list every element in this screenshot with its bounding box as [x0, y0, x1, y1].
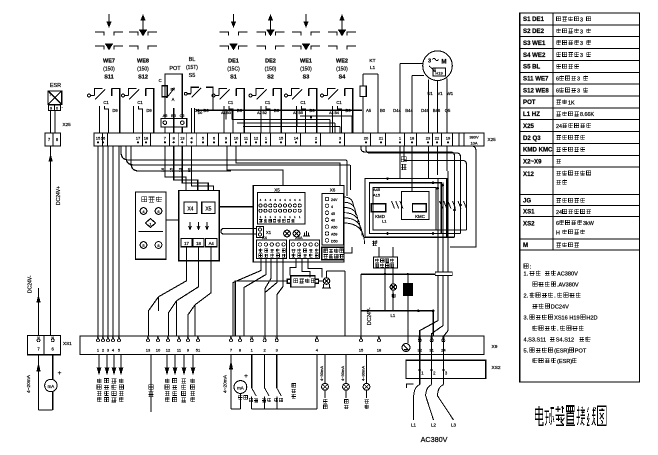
terminal bus X2 [94, 133, 484, 146]
signal wires left [98, 146, 119, 336]
svg-text:S11 WE7: S11 WE7 [523, 76, 549, 83]
svg-text:22: 22 [435, 136, 440, 141]
speed controller ESR [48, 91, 63, 111]
motor M 3-phase [423, 51, 453, 81]
svg-text:KT: KT [369, 58, 375, 64]
svg-text:L1: L1 [370, 65, 376, 71]
label WE1 S3 [300, 59, 312, 81]
svg-text:4~20mA: 4~20mA [223, 374, 229, 393]
svg-text:X25: X25 [63, 122, 72, 127]
signal outputs mid [165, 355, 195, 402]
motor leads U1 V1 W1 [393, 64, 454, 134]
svg-text:+: + [244, 373, 248, 380]
plug connector XS2 [406, 360, 486, 378]
fuse black box [403, 284, 412, 344]
table row X2~X9 [523, 158, 561, 165]
wire X4 module to X5 block [219, 206, 253, 208]
table row S11 WE7 [523, 76, 588, 83]
svg-text:3: 3 [580, 29, 583, 35]
label POT [169, 66, 181, 72]
svg-text:12: 12 [166, 348, 171, 353]
table row D2 Q3 [523, 135, 585, 142]
svg-text:3: 3 [428, 59, 431, 65]
microswitch contact S4 [321, 89, 353, 134]
wire into X5 top [227, 146, 340, 186]
svg-text:6: 6 [556, 89, 559, 95]
svg-text:2.: 2. [524, 294, 529, 300]
svg-text:L1: L1 [391, 313, 396, 318]
brake unit box [287, 276, 318, 287]
label ESR [50, 83, 61, 89]
svg-text:POT: POT [575, 349, 587, 355]
wire brake left [235, 281, 323, 336]
wire module feeds [344, 247, 393, 311]
svg-text:L2: L2 [431, 423, 436, 428]
svg-text:C1: C1 [336, 100, 342, 105]
svg-text:H2D: H2D [586, 316, 597, 322]
svg-text:A: A [172, 97, 175, 102]
label XS2 [492, 365, 501, 371]
component table grid [520, 13, 640, 382]
POT terminal block A5 B5 C5 [161, 114, 187, 127]
svg-text:DE1: DE1 [228, 59, 239, 65]
svg-text:A45: A45 [373, 187, 381, 192]
svg-text:S1 DE1: S1 DE1 [523, 16, 545, 23]
limit switch cam symbol S1 [220, 14, 248, 50]
svg-text:(150): (150) [137, 67, 149, 73]
svg-text:5.: 5. [524, 349, 529, 355]
svg-text:X25: X25 [488, 137, 497, 142]
table row X12 [523, 171, 591, 185]
table row S3 WE1 [523, 40, 591, 47]
svg-text:X4: X4 [187, 207, 193, 213]
svg-text:ESR: ESR [50, 83, 61, 89]
svg-text:mA: mA [237, 386, 244, 391]
svg-text:C1: C1 [228, 100, 234, 105]
svg-text:13: 13 [146, 348, 151, 353]
svg-text:A1 B3: A1 B3 [221, 111, 231, 115]
svg-text:X6: X6 [330, 188, 336, 193]
svg-text:14: 14 [294, 136, 299, 141]
svg-text:S5 BL: S5 BL [523, 64, 541, 71]
svg-text:23: 23 [426, 136, 431, 141]
table row S5 BL [523, 64, 579, 71]
svg-text:X6A: X6A [295, 235, 303, 240]
svg-text:18: 18 [196, 241, 201, 246]
svg-text:19: 19 [446, 136, 451, 141]
svg-text:S3 WE1: S3 WE1 [523, 40, 546, 47]
wire loop outer [365, 179, 447, 238]
svg-text:20: 20 [364, 136, 369, 141]
relay module X4 X5 [179, 190, 220, 260]
wire loop inner [373, 188, 436, 230]
svg-text:M: M [441, 59, 446, 66]
label AC380V [421, 435, 448, 444]
svg-text:51: 51 [196, 348, 201, 353]
svg-text:DC24V: DC24V [551, 305, 569, 311]
svg-text:L1: L1 [382, 219, 387, 224]
svg-text:WE2: WE2 [336, 59, 348, 65]
table row POT [523, 99, 575, 106]
phase wires to XS2 [420, 146, 453, 379]
svg-text:31: 31 [429, 348, 434, 353]
analog outputs left [97, 355, 124, 402]
svg-text:8.66K: 8.66K [580, 112, 594, 118]
svg-text:4.S3.S11: 4.S3.S11 [524, 338, 547, 344]
svg-text:H: H [556, 230, 560, 236]
svg-text:S2 DE2: S2 DE2 [523, 28, 545, 35]
table row XS1 [523, 208, 591, 216]
svg-text:S4.S12: S4.S12 [556, 338, 574, 344]
indicator lamps pair [284, 230, 310, 237]
svg-text:X9: X9 [492, 344, 498, 350]
svg-text:12: 12 [254, 136, 259, 141]
svg-text:10: 10 [156, 348, 161, 353]
svg-text:24V: 24V [331, 198, 338, 202]
svg-text:X5: X5 [274, 188, 280, 193]
svg-text:D50: D50 [331, 239, 338, 243]
svg-text:3: 3 [580, 53, 583, 59]
wires loops to bus [379, 237, 388, 247]
svg-text:X25: X25 [523, 123, 534, 130]
svg-text:V1: V1 [437, 91, 443, 96]
svg-text:24: 24 [556, 124, 562, 130]
svg-text:7: 7 [49, 93, 51, 97]
svg-text:18: 18 [144, 136, 149, 141]
svg-text:X4: X4 [262, 235, 268, 240]
svg-text:17: 17 [136, 136, 141, 141]
svg-text:WE1: WE1 [300, 59, 312, 65]
svg-text:X12: X12 [523, 171, 534, 178]
switch contact S5 [184, 87, 213, 133]
label X25 right [488, 137, 497, 142]
indicator lamp L3 [390, 284, 396, 298]
terminal info box [322, 247, 344, 259]
svg-text:H19: H19 [435, 70, 443, 75]
label WE8 S12 [137, 59, 149, 81]
svg-text:(150): (150) [265, 67, 277, 73]
label X25 left [63, 122, 72, 127]
svg-text:S1: S1 [230, 75, 237, 81]
svg-text:18: 18 [377, 348, 382, 353]
wire loop mid [369, 183, 441, 234]
svg-text:A4: A4 [209, 241, 215, 246]
svg-text:4~30mA: 4~30mA [340, 366, 345, 381]
svg-text:C1: C1 [300, 100, 306, 105]
svg-text:XS1: XS1 [63, 341, 72, 346]
svg-text:D44: D44 [393, 108, 401, 113]
label DC24V- mid [367, 307, 373, 325]
svg-text:3: 3 [580, 17, 583, 23]
svg-text:13: 13 [180, 136, 185, 141]
table row S12 WE8 [523, 87, 588, 94]
table row L1 HZ [523, 111, 594, 118]
svg-text:C1: C1 [137, 100, 143, 105]
connector strip X4 lower [257, 235, 287, 259]
buzzer component [322, 271, 345, 336]
svg-text:B0: B0 [380, 108, 386, 113]
svg-text:XS2: XS2 [523, 221, 535, 228]
svg-text:S2: S2 [267, 75, 274, 81]
connector strip X6 lower [290, 235, 320, 259]
labels L1 L2 [373, 219, 387, 245]
svg-text:3: 3 [577, 77, 580, 83]
microswitch contact S12 [122, 89, 154, 134]
svg-text:18: 18 [410, 136, 415, 141]
svg-text:40: 40 [331, 219, 335, 223]
svg-text:6: 6 [556, 77, 559, 83]
svg-text:C1: C1 [103, 100, 109, 105]
wire controller to X4 [166, 219, 179, 221]
svg-text:A15: A15 [373, 193, 381, 198]
microswitch contact S1 [212, 89, 244, 134]
label DE2 S2 [265, 59, 277, 81]
connector X1 [257, 227, 272, 238]
terminal block XS1 [28, 336, 61, 355]
wire loop kmc [402, 192, 429, 220]
svg-text:4~30mA: 4~30mA [319, 366, 324, 381]
svg-text:XS16 H19: XS16 H19 [554, 316, 580, 322]
svg-text:A5: A5 [163, 114, 168, 118]
title text [535, 406, 606, 426]
contactor coil KMD [371, 204, 386, 219]
svg-text:(15C): (15C) [227, 67, 240, 73]
svg-text:10: 10 [234, 136, 239, 141]
svg-text:3: 3 [577, 89, 580, 95]
phase loop wires right [361, 146, 476, 247]
wires POT to bus X2 [165, 108, 182, 133]
svg-text:B44: B44 [405, 108, 413, 113]
svg-text:A50: A50 [331, 226, 337, 230]
pushbutton group [249, 355, 316, 409]
thermistor L1 HZ [360, 74, 386, 133]
limit switch cam symbol S12 [129, 15, 157, 50]
wires module to bus X9 [149, 247, 212, 336]
svg-text:XS1: XS1 [523, 208, 535, 215]
svg-text:D2 Q3: D2 Q3 [523, 135, 541, 142]
ammeter output center [223, 355, 249, 409]
svg-text:L1 HZ: L1 HZ [523, 111, 540, 118]
wire DC24V- rail [28, 275, 41, 335]
svg-text:W1: W1 [447, 91, 454, 96]
svg-text:21: 21 [379, 136, 384, 141]
svg-text:4: 4 [331, 205, 333, 209]
label X9 [492, 344, 498, 350]
wires to module X4 X5 [161, 146, 214, 190]
svg-text:15: 15 [359, 348, 364, 353]
svg-text:15: 15 [279, 136, 284, 141]
wires ESR down [51, 110, 55, 133]
svg-text:L1: L1 [411, 423, 416, 428]
connector strip X5 upper [253, 186, 344, 263]
svg-text:45: 45 [331, 212, 335, 216]
svg-text:C: C [159, 78, 162, 83]
svg-text:D9: D9 [146, 108, 152, 113]
svg-text:POT: POT [523, 99, 536, 106]
ammeter output left [26, 355, 62, 410]
svg-text:mA: mA [48, 384, 55, 389]
label BL S5 [186, 57, 198, 79]
svg-text:S5: S5 [189, 73, 196, 79]
svg-text:4~30mA: 4~30mA [361, 366, 366, 381]
wires into X1 block [221, 229, 257, 235]
svg-text:AC380V: AC380V [557, 272, 578, 278]
table row M [523, 242, 579, 249]
terminal bus X9 [80, 336, 484, 355]
svg-text:3.: 3. [524, 316, 529, 322]
table row JG [523, 197, 585, 204]
table row S4 WE2 [523, 52, 591, 59]
svg-text:4~20mA: 4~20mA [26, 374, 32, 393]
svg-text:A5: A5 [366, 108, 372, 113]
label XS1 [63, 341, 72, 346]
wire bundle X6 outputs [344, 197, 365, 244]
svg-text:D9: D9 [112, 108, 118, 113]
svg-text:380V: 380V [469, 135, 479, 140]
svg-text:3kW: 3kW [583, 221, 595, 227]
wire horizontal b [131, 146, 231, 171]
svg-text:DE2: DE2 [265, 59, 276, 65]
limit switch cam symbol S11 [95, 14, 123, 50]
svg-text:24: 24 [441, 348, 446, 353]
svg-text:POT: POT [169, 66, 181, 72]
wire DC24V+ rail [49, 146, 62, 336]
svg-text:32: 32 [417, 348, 422, 353]
svg-text:L3: L3 [451, 423, 456, 428]
junction dots [386, 177, 462, 312]
svg-text:DC24V-: DC24V- [28, 275, 34, 293]
svg-text:X2~X9: X2~X9 [523, 158, 542, 165]
contactor coil KMC [412, 204, 426, 219]
svg-text:S4: S4 [339, 75, 347, 81]
svg-text:1.: 1. [524, 272, 529, 278]
svg-text:S12: S12 [138, 75, 148, 81]
svg-text:(150): (150) [300, 67, 312, 73]
svg-text:(150): (150) [336, 67, 348, 73]
svg-text:WE7: WE7 [103, 59, 115, 65]
auto wire [148, 355, 153, 412]
svg-text:10A: 10A [470, 141, 477, 146]
table row XS2 [523, 220, 595, 236]
interconnect ladder [196, 109, 362, 133]
potentiometer POT [159, 74, 183, 119]
notes text [524, 264, 598, 365]
indicator lamps bottom [319, 355, 370, 409]
controller unit [135, 192, 166, 259]
svg-text:9: 9 [50, 106, 52, 110]
svg-text:S3: S3 [303, 75, 310, 81]
svg-text:(15T): (15T) [186, 65, 198, 71]
wire coil feeds [345, 160, 351, 196]
aux contacts KMC [440, 201, 451, 209]
svg-text:B46: B46 [433, 108, 441, 113]
aux contacts KMD [392, 201, 403, 209]
svg-text:+: + [58, 370, 62, 377]
svg-text:A3 B5: A3 B5 [293, 111, 303, 115]
svg-text:X5: X5 [205, 207, 211, 213]
table row S1 DE1 [523, 16, 591, 23]
svg-text:KMC: KMC [415, 214, 425, 219]
svg-text:C1: C1 [265, 100, 271, 105]
limit switch cam symbol S2 [257, 15, 285, 50]
table row KMD KMC [523, 147, 585, 154]
svg-text:24: 24 [556, 210, 562, 216]
svg-text:BL: BL [189, 57, 196, 63]
svg-text:A2 B2: A2 B2 [257, 111, 267, 115]
svg-text:XS2: XS2 [492, 365, 501, 371]
microswitch contact S2 [249, 89, 281, 134]
svg-text:3: 3 [580, 41, 583, 47]
limit switch cam symbol S3 [292, 14, 320, 50]
label WE2 S4 [336, 59, 348, 81]
label DE1 S1 [227, 59, 240, 81]
table row S2 DE2 [523, 28, 591, 35]
svg-text:DC24V-: DC24V- [367, 307, 373, 325]
svg-text:(150): (150) [103, 67, 115, 73]
label KT L1 [369, 58, 375, 71]
wires X5 to bus X9 [233, 259, 322, 337]
svg-text:D46: D46 [421, 108, 429, 113]
svg-text:0: 0 [56, 106, 58, 110]
svg-text:C5: C5 [180, 114, 185, 118]
labels A45 A15 [373, 187, 381, 198]
svg-text:17: 17 [184, 241, 189, 246]
svg-text:A59: A59 [331, 233, 337, 237]
label L2 module [372, 241, 377, 245]
svg-text:.AV380V: .AV380V [557, 283, 579, 289]
wire horizontal a [121, 146, 350, 165]
svg-text:(ESR): (ESR) [557, 359, 572, 365]
label L1 bottom [391, 313, 396, 318]
label WE7 S11 [103, 59, 115, 81]
svg-text:16: 16 [101, 136, 106, 141]
svg-text:U1: U1 [427, 91, 433, 96]
svg-text:S11: S11 [104, 75, 113, 81]
table row X25 [523, 123, 591, 130]
svg-text:S12 WE8: S12 WE8 [523, 87, 549, 94]
svg-text:DC24V+: DC24V+ [56, 186, 62, 205]
microswitch contact S3 [285, 89, 317, 134]
terminal block X25 pins 7 8 [45, 133, 61, 146]
connector strip X6 [322, 188, 344, 246]
svg-text:AC380V: AC380V [421, 435, 448, 444]
wires D44 B44 down [400, 146, 412, 192]
svg-text:S4 WE2: S4 WE2 [523, 52, 546, 59]
svg-text:D0: D0 [198, 111, 203, 115]
microswitch contact S11 [88, 89, 120, 134]
svg-text:A4 B4: A4 B4 [329, 111, 339, 115]
wires module area [361, 268, 435, 336]
label vertical Z [401, 157, 407, 170]
svg-text:JG: JG [523, 197, 531, 204]
circuit breaker QF [407, 384, 457, 428]
svg-text:(ESR): (ESR) [554, 349, 569, 355]
svg-text:Q5: Q5 [445, 108, 451, 113]
aux contacts KMC2 [453, 201, 467, 209]
svg-text:6: 6 [556, 221, 559, 227]
svg-text:WE8: WE8 [137, 59, 149, 65]
limit switch cam symbol S4 [328, 15, 356, 50]
power module [374, 257, 398, 268]
svg-text:KMD KMC: KMD KMC [523, 147, 553, 154]
svg-text:1K: 1K [568, 100, 575, 106]
wires into XS2 [420, 355, 444, 385]
svg-text:M: M [523, 242, 528, 249]
